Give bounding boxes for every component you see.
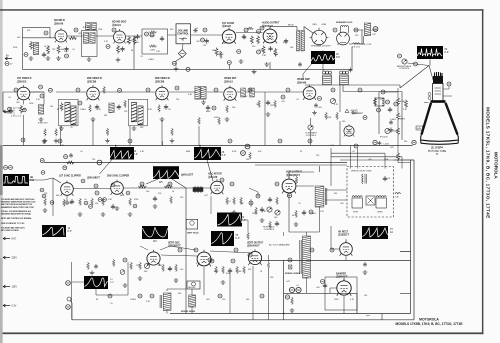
terminal sync s2: [42, 194, 46, 198]
coil T5a: [65, 103, 70, 122]
capacitor C34: [95, 105, 99, 110]
wire L60: [167, 289, 186, 314]
bottom bus wire upper: [170, 313, 411, 315]
terminal circle t32: [248, 253, 252, 257]
svg-text:GRN: GRN: [322, 24, 327, 26]
svg-text:MODELS 17K5B, 17K9, B, BC, 17T: MODELS 17K5B, 17K9, B, BC, 17T3O, 17T4E: [396, 322, 463, 326]
svg-text:.01: .01: [352, 151, 355, 153]
wire V16 cathode drop: [252, 266, 254, 320]
tube V17 hv rect 1B3GT: [340, 241, 353, 256]
ground T2: [87, 57, 92, 61]
terminal circle t27: [230, 182, 234, 186]
terminal V13 cathode: [287, 193, 291, 197]
flyback transformer T9: [315, 186, 324, 207]
svg-text:.25: .25: [70, 127, 73, 129]
terminal focus: [386, 100, 390, 104]
terminal arrow B3: [3, 304, 17, 308]
terminal damper loop: [285, 295, 289, 299]
svg-text:330: 330: [104, 115, 107, 117]
ground C91: [363, 270, 368, 274]
resistor R62: [240, 197, 243, 205]
svg-text:1 MEG: 1 MEG: [130, 299, 136, 301]
tube V1 sound IF 6AU6: [55, 28, 67, 43]
vert output transformer T10: [303, 236, 311, 278]
voice coil above plug: [341, 25, 349, 33]
svg-text:330: 330: [334, 193, 337, 195]
resistor R3: [47, 45, 50, 54]
svg-text:.05: .05: [168, 109, 171, 111]
svg-text:68: 68: [96, 299, 98, 301]
ground V8: [225, 117, 230, 121]
resistor R15: [215, 48, 224, 57]
terminal circle t25: [140, 182, 144, 186]
terminal circle t33: [310, 248, 314, 252]
wire contrast drop: [310, 118, 312, 146]
svg-text:1 MEG: 1 MEG: [148, 59, 154, 61]
T10 core: [300, 240, 301, 274]
terminal ant B: [23, 108, 27, 112]
svg-text:680K: 680K: [206, 111, 211, 113]
svg-text:Ⓢ6AV6: Ⓢ6AV6: [222, 24, 231, 28]
svg-text:.002: .002: [196, 41, 200, 43]
pot hor hold: [275, 210, 280, 215]
resistor R53: [91, 198, 94, 206]
damper enclosure: [325, 277, 357, 310]
circled ref 99: [398, 54, 402, 58]
capacitor C72: [260, 207, 264, 212]
svg-text:READINGS TAKEN FROM SOCKET LUG: READINGS TAKEN FROM SOCKET LUGS: [1, 201, 36, 204]
waveform scope photo W-L yoke current: [362, 226, 394, 239]
resistor R19: [257, 36, 260, 45]
svg-text:CONTROL: CONTROL: [264, 229, 275, 231]
svg-text:470K: 470K: [13, 47, 18, 49]
detector peaking coil L40: [241, 88, 246, 97]
svg-text:AND TIE POINTS AS SHOWN BY THE: AND TIE POINTS AS SHOWN BY THE: [1, 203, 33, 206]
svg-text:BLUE: BLUE: [288, 24, 294, 26]
svg-text:255V: 255V: [12, 258, 18, 260]
capacitor C19: [284, 39, 288, 44]
resistor R38: [158, 105, 161, 113]
yoke damping network: [366, 196, 375, 205]
capacitor C85: [228, 268, 232, 273]
waveform scope photo W-F: [153, 166, 180, 184]
resistor R71: [295, 210, 298, 218]
svg-text:CONTROL: CONTROL: [399, 68, 410, 70]
waveform scope photo W-B video at CRT: [417, 46, 449, 59]
resistor R36: [106, 128, 109, 136]
terminal 66: [309, 210, 313, 214]
svg-text:150: 150: [92, 159, 95, 161]
capacitor C43: [266, 100, 270, 105]
terminal sync s0: [41, 171, 45, 175]
resistor R10: [128, 36, 136, 45]
terminal 70: [210, 259, 214, 263]
svg-text:SUN: SUN: [417, 128, 422, 130]
svg-text:MEG: MEG: [400, 118, 405, 120]
terminal circle t39: [138, 294, 142, 298]
waveform scope photo W-D: [110, 147, 138, 160]
tube V10b hor osc half: [344, 124, 354, 136]
ground V4 cathode: [264, 62, 269, 66]
terminal below rail2: [63, 166, 67, 170]
resistor R95: [267, 262, 269, 268]
svg-text:.25: .25: [380, 99, 383, 101]
terminal arrow HOT: [3, 237, 17, 241]
waveform scope photo W-E: [194, 147, 226, 160]
resistor R41: [218, 117, 221, 125]
height control box: [187, 281, 200, 289]
resistor R11: [133, 36, 136, 45]
coil T6a: [131, 103, 136, 122]
ground R52: [78, 212, 83, 216]
resistor R42: [226, 105, 229, 113]
coil L36: [109, 103, 114, 113]
svg-text:470K: 470K: [226, 273, 231, 275]
resistor R2: [30, 41, 39, 50]
terminal 93: [394, 102, 398, 106]
svg-text:Ⓢ6AX4GT: Ⓢ6AX4GT: [247, 244, 260, 248]
capacitor C18: [268, 46, 272, 51]
test point TP2: [65, 54, 69, 58]
capacitor rail2: [69, 153, 73, 158]
CRT face: [421, 135, 459, 142]
terminal rail2 start: [40, 159, 44, 163]
terminal top right: [373, 27, 378, 32]
capacitor C73: [275, 221, 279, 226]
svg-text:P-P: P-P: [445, 51, 449, 54]
wire V7 to V8: [169, 92, 223, 146]
resistor R87: [243, 266, 246, 274]
coil T5b: [71, 106, 76, 125]
flyback core: [325, 188, 326, 205]
svg-text:.002: .002: [390, 147, 394, 149]
test point TP1: [24, 53, 28, 57]
svg-text:.05: .05: [84, 199, 87, 201]
svg-text:READINGS MADE WITH NO SIGNAL: READINGS MADE WITH NO SIGNAL: [1, 213, 32, 216]
wire box A diagonal: [303, 64, 312, 80]
resistor R9: [117, 45, 120, 54]
terminal circle t6: [333, 28, 337, 32]
ground audio rail: [252, 69, 257, 73]
sound section enclosure wire: [22, 27, 134, 69]
ground R39: [170, 139, 175, 143]
terminal circle t37: [288, 258, 292, 262]
svg-text:150: 150: [252, 46, 255, 48]
capacitor C30: [9, 108, 13, 113]
svg-text:P-P: P-P: [31, 180, 35, 182]
capacitor C89: [378, 141, 382, 146]
IF input terminal arrow: [3, 110, 10, 113]
svg-text:SPEAKER PLUG: SPEAKER PLUG: [336, 21, 353, 24]
CRT yoke crossbar: [431, 100, 446, 103]
resistor R63: [247, 232, 250, 240]
svg-text:HOR: HOR: [353, 212, 358, 214]
svg-text:PHONO: PHONO: [5, 113, 13, 115]
svg-text:.047: .047: [286, 281, 290, 283]
coil T7b: [201, 87, 206, 100]
test point TP9: [118, 88, 122, 92]
wire socket to W-A: [322, 50, 324, 71]
resistor R58: [170, 196, 173, 204]
integrator network box: [193, 186, 203, 193]
svg-text:6.3V: 6.3V: [12, 306, 17, 308]
svg-text:100: 100: [274, 217, 277, 219]
svg-text:AC VOLT MEASURE: AC VOLT MEASURE: [269, 244, 290, 247]
resistor R6 horizontal: [69, 37, 78, 40]
wire det to video amp: [237, 92, 303, 146]
damper loop wire: [284, 261, 357, 314]
terminal below WB: [414, 62, 418, 66]
coil T7a: [195, 87, 200, 100]
resistor R30: [20, 105, 27, 114]
svg-text:VERT: VERT: [377, 212, 383, 214]
terminal circle t13: [248, 88, 252, 92]
capacitor C100: [388, 107, 392, 112]
svg-text:470K: 470K: [214, 117, 219, 119]
capacitor C80: [168, 266, 172, 271]
ground R90: [290, 308, 295, 312]
resistor R17 horizontal: [247, 27, 253, 30]
svg-text:INPUT AND CONTROLS AT NORMAL: INPUT AND CONTROLS AT NORMAL: [1, 217, 32, 220]
resistor R18: [250, 36, 253, 45]
svg-text:.25: .25: [110, 303, 113, 305]
terminal rail B: [241, 151, 246, 156]
tube V9 video amp 6AH6: [303, 85, 316, 100]
resistor R54: [102, 198, 105, 206]
terminal 64: [220, 178, 224, 182]
test point TP5: [201, 38, 205, 42]
waveform scope photo W-A audio output: [311, 51, 340, 64]
svg-text:DEFLECTION YOKE: DEFLECTION YOKE: [351, 171, 372, 173]
tube V15 vert output: [197, 250, 211, 267]
capacitor C15: [205, 39, 209, 44]
svg-text:.01: .01: [72, 49, 75, 51]
svg-text:100: 100: [342, 121, 345, 123]
ion trap label: [416, 126, 423, 130]
terminal sync s9: [81, 179, 85, 183]
matching coil right of plug: [349, 30, 362, 44]
svg-text:.25: .25: [140, 56, 143, 58]
terminal rail C: [245, 144, 250, 149]
B+ rail wire: [250, 260, 411, 262]
bottom bus wire lower: [72, 319, 414, 321]
svg-text:WITH LINE VOLTAGE: WITH LINE VOLTAGE: [1, 229, 19, 232]
capacitor C14 coupling: [193, 29, 198, 33]
antenna terminal arrow: [5, 56, 12, 60]
terminal circle t10: [76, 88, 80, 92]
IF transformer T1 top: [86, 22, 91, 30]
svg-text:135V: 135V: [12, 287, 18, 289]
CRT socket: [433, 76, 443, 84]
waveform scope photo W-I vert saw: [142, 226, 168, 243]
width coil L30: [395, 193, 401, 199]
IF transformer T7 on wire: [195, 87, 206, 105]
wire drops row2 to rail: [24, 85, 341, 146]
terminal circle t34: [330, 248, 334, 252]
terminal 90: [381, 90, 385, 94]
svg-text:.047: .047: [330, 145, 334, 147]
terminal jack A: [289, 287, 294, 292]
ground V6: [91, 117, 96, 121]
terminal circle t4: [244, 28, 248, 32]
IF transformer T5 cluster: [59, 99, 79, 130]
svg-text:68: 68: [57, 109, 59, 111]
terminal 94: [363, 116, 367, 120]
terminal circle t38: [108, 294, 112, 298]
capacitor C11: [135, 34, 140, 44]
terminal 60: [281, 95, 285, 99]
svg-text:.047: .047: [64, 51, 68, 53]
svg-text:.01: .01: [296, 99, 299, 101]
transformer T11 bottom: [189, 295, 196, 307]
capacitor C51: [70, 199, 74, 204]
capacitor C22: [349, 68, 353, 73]
terminal 73: [321, 280, 325, 284]
capacitor C40: [206, 105, 210, 110]
ground R15: [239, 59, 244, 63]
svg-text:VERT HOLD: VERT HOLD: [187, 232, 199, 234]
terminal arrow B2: [3, 285, 17, 289]
terminal 68: [249, 201, 253, 205]
IF transformer T6 cluster: [129, 99, 148, 130]
ground above rail: [42, 139, 47, 143]
terminal circle t7: [354, 28, 358, 32]
svg-text:.005: .005: [316, 287, 320, 289]
terminal circle t5: [260, 26, 264, 30]
resistor R39: [171, 128, 174, 136]
svg-text:SPEAKER SOCKET: SPEAKER SOCKET: [311, 44, 332, 47]
terminal B+ audio: [227, 61, 231, 65]
svg-text:220K: 220K: [252, 213, 257, 215]
yoke return verticals: [394, 160, 414, 320]
svg-text:MODEL RUNS: MODEL RUNS: [285, 273, 300, 275]
tube V2 sound disc 6AL5: [114, 29, 126, 44]
ground R33: [54, 139, 59, 143]
resistor rail R65: [249, 152, 252, 159]
ground R83: [174, 278, 179, 282]
terminal circle t36: [208, 258, 212, 262]
bus left riser wire: [71, 301, 73, 320]
ground R55: [128, 212, 133, 216]
svg-text:MODELS 17K5L, 17K9, B, BC, 17T: MODELS 17K5L, 17K9, B, BC, 17T3O, 17T4E: [486, 107, 491, 219]
terminal sync s7: [103, 198, 107, 202]
yoke feed wires: [331, 146, 402, 169]
circled ref 45: [74, 28, 78, 32]
terminal B: [172, 61, 176, 65]
pot hor drive: [267, 207, 272, 212]
svg-text:220K: 220K: [384, 159, 389, 161]
svg-text:100: 100: [126, 42, 129, 44]
terminal circle t15: [331, 88, 335, 92]
picture tube V18 17BP4: [421, 72, 459, 156]
resistor R103: [397, 152, 400, 161]
terminal 71: [231, 259, 235, 263]
long rail upper mid: [3, 145, 413, 147]
CRT bell left wall: [422, 103, 432, 135]
tube V5 1st video IF 6AG5: [17, 85, 30, 100]
ground C72: [260, 218, 265, 222]
svg-text:Ⓢ 17BP4: Ⓢ 17BP4: [431, 146, 444, 150]
svg-text:Ⓢ6AU8: Ⓢ6AU8: [208, 175, 218, 179]
svg-text:68: 68: [292, 215, 294, 217]
resistor R81: [139, 262, 142, 270]
yoke cap C90: [383, 176, 391, 181]
svg-text:.01: .01: [228, 201, 231, 203]
svg-text:1ST SYNC CLIPPER: 1ST SYNC CLIPPER: [59, 175, 81, 177]
svg-text:P-P: P-P: [242, 219, 246, 222]
resistor R24 right: [374, 98, 377, 107]
capacitor C91: [363, 262, 367, 267]
waveform scope photo W-C sync pulses: [3, 174, 34, 186]
resistor R56 horizontal: [138, 185, 147, 188]
svg-text:Ⓢ6SN7GT: Ⓢ6SN7GT: [168, 244, 181, 248]
ground R31: [43, 139, 48, 143]
resistor R5: [57, 45, 65, 54]
waveform scope photo W-H vert sync: [42, 225, 72, 237]
wire V15 down: [203, 267, 205, 295]
wire V10 cathode: [66, 196, 68, 201]
ground V1 cathode: [56, 56, 61, 60]
terminal sync s6: [98, 198, 102, 202]
svg-text:2ND SYNC CLIPPER: 2ND SYNC CLIPPER: [107, 175, 130, 177]
svg-text:NUMBERS AT EACH POINT. USE VTV: NUMBERS AT EACH POINT. USE VTVM: [1, 206, 34, 209]
terminal sync s11: [133, 204, 137, 208]
L60 core: [160, 295, 161, 308]
svg-text:Ⓢ6AL5: Ⓢ6AL5: [112, 23, 121, 27]
resistor R47: [325, 112, 328, 120]
ground V2: [116, 58, 121, 62]
junction dot rail1: [115, 145, 117, 147]
capacitor C16: [242, 34, 246, 39]
wire sound chain: [67, 36, 134, 69]
svg-text:470K: 470K: [134, 199, 139, 201]
svg-text:330: 330: [170, 29, 173, 31]
ground R71: [294, 222, 299, 226]
ground R50: [43, 208, 48, 212]
capacitor CK1: [94, 264, 98, 269]
svg-text:.005: .005: [16, 102, 20, 104]
resistor R69: [295, 176, 298, 184]
svg-text:680K: 680K: [120, 195, 125, 197]
resistor R84: [215, 266, 218, 274]
capacitor C93: [389, 120, 393, 125]
svg-text:Ⓢ6W4GT: Ⓢ6W4GT: [336, 275, 348, 279]
resistor on rail2: [66, 161, 75, 164]
bus tie vertical: [284, 314, 382, 320]
field coil L5: [364, 23, 370, 36]
focus divider wire: [383, 88, 411, 163]
resistor R61: [233, 197, 236, 205]
terminal circle t40: [218, 294, 222, 298]
svg-text:FOR ALL VOLTAGE READINGS. ALL: FOR ALL VOLTAGE READINGS. ALL: [1, 210, 32, 213]
terminal sync s10: [126, 191, 130, 195]
wire box C to V10: [29, 178, 61, 216]
terminal 99b: [186, 67, 190, 71]
svg-text:.01: .01: [296, 285, 299, 287]
svg-text:220K: 220K: [150, 50, 156, 52]
svg-text:P-P: P-P: [68, 230, 72, 233]
capacitor C5: [64, 47, 68, 52]
terminal K2: [66, 305, 71, 310]
svg-text:150: 150: [176, 99, 179, 101]
pot vert lin: [144, 263, 149, 268]
ground K2: [123, 283, 128, 287]
terminal 58: [212, 106, 216, 110]
terminal yoke 89: [412, 140, 416, 144]
resistor R20: [259, 46, 265, 55]
resistor R102: [397, 127, 400, 136]
svg-text:RED: RED: [313, 24, 318, 26]
